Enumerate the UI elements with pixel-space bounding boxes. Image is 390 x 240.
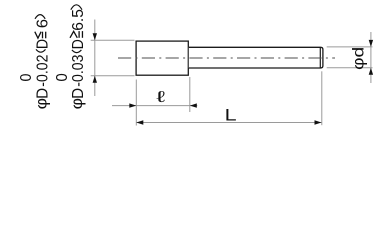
close paren [35, 15, 45, 19]
center line [118, 57, 335, 59]
phid dimension line [370, 32, 372, 83]
svg-text:-0.03: -0.03 [70, 55, 87, 87]
phiD dimension line [94, 20, 96, 97]
phid arrow top [369, 40, 373, 47]
ell left extension line [135, 80, 137, 126]
open paren [72, 50, 82, 53]
shank end cap line [319, 47, 321, 68]
L dimension line [136, 122, 321, 124]
label phid [351, 47, 368, 70]
pin shank body [189, 47, 323, 68]
svg-text:D: D [34, 39, 51, 49]
phid bottom extension line [327, 67, 373, 69]
phiD top extension line [91, 39, 135, 41]
svg-text:0: 0 [54, 73, 71, 81]
pin head body [136, 41, 188, 75]
svg-text:-0.02: -0.02 [34, 55, 51, 87]
svg-text:L: L [225, 106, 237, 125]
svg-text:6: 6 [34, 19, 51, 28]
svg-text:D: D [70, 39, 87, 49]
ell right extension line [189, 77, 191, 112]
L arrow left [136, 120, 143, 124]
open paren [36, 49, 46, 52]
ell dimension line [112, 105, 197, 107]
L right extension line [321, 71, 323, 125]
ell arrow left [129, 103, 136, 107]
label phiD 0/-0.02 (D&le;6) [18, 15, 51, 110]
svg-text:D: D [34, 88, 51, 99]
close paren [71, 5, 82, 10]
ell arrow right [190, 103, 197, 107]
svg-text:D: D [70, 88, 87, 99]
less-than-over-equals sign [35, 32, 41, 38]
svg-text:0: 0 [18, 74, 35, 82]
svg-text:φd: φd [351, 47, 368, 70]
svg-text:6.5: 6.5 [70, 9, 87, 31]
phid arrow bottom [369, 68, 373, 75]
phid top extension line [327, 46, 373, 48]
phiD bottom extension line [91, 75, 135, 77]
label phiD 0/-0.03 (D&ge;6.5) [54, 5, 87, 110]
greater-than-over-equals sign [70, 31, 77, 38]
L arrow right [315, 120, 322, 124]
svg-text:ℓ: ℓ [156, 88, 166, 106]
phiD arrow top [93, 33, 97, 40]
phiD arrow bottom [93, 76, 97, 83]
